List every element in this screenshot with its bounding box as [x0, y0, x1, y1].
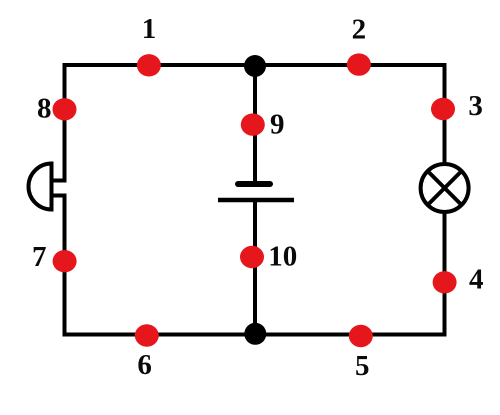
svg-text:4: 4 [469, 264, 484, 296]
node 5 (red dot) [349, 325, 373, 347]
wire left upper (top corner to buzzer) [63, 63, 67, 183]
svg-text:1: 1 [142, 13, 157, 45]
node 4 (red dot) [433, 271, 457, 293]
svg-text:5: 5 [355, 350, 370, 382]
buzzer bottom lead stub [52, 194, 67, 198]
svg-text:2: 2 [352, 13, 367, 45]
svg-text:7: 7 [32, 241, 47, 273]
node 2 (red dot) [347, 53, 371, 75]
wire top (node between junctions) [63, 63, 447, 67]
buzzer top lead stub [52, 179, 67, 183]
wire middle lower (battery to bottom junction) [253, 200, 257, 335]
battery BT1 long plate (bottom) [218, 198, 294, 203]
node 9 (red dot) [241, 113, 265, 135]
node 6 (red dot) [135, 324, 159, 346]
junction bottom (black dot) [244, 323, 266, 345]
svg-text:6: 6 [137, 349, 152, 381]
wire bottom [63, 333, 447, 337]
lamp L1 cross stroke 1 [428, 171, 462, 205]
svg-text:3: 3 [468, 90, 483, 122]
wire right upper (top corner to lamp) [443, 63, 447, 166]
wire left lower (buzzer to bottom corner) [63, 194, 67, 337]
junction top (black dot) [244, 55, 266, 77]
lamp L1 circle [421, 164, 469, 212]
svg-text:10: 10 [268, 241, 297, 273]
wire right lower (lamp to bottom corner) [443, 210, 447, 337]
node 7 (red dot) [53, 250, 77, 272]
node 3 (red dot) [431, 98, 455, 120]
node 8 (red dot) [53, 98, 77, 120]
svg-text:9: 9 [270, 108, 285, 140]
wire middle upper (top junction to battery) [253, 65, 257, 183]
lamp L1 cross stroke 2 [428, 171, 462, 205]
svg-text:8: 8 [37, 93, 52, 125]
battery BT1 short thick plate (top) [238, 181, 270, 187]
buzzer B1 (semicircle, flat side right) [29, 164, 52, 210]
node 1 (red dot) [137, 54, 161, 76]
node 10 (red dot) [240, 246, 264, 268]
